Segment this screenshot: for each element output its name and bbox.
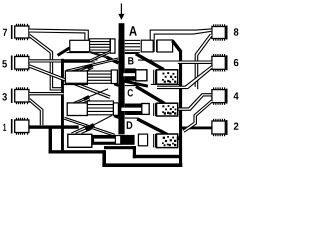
input arrow [118,4,124,20]
input shaft bar A [119,23,125,39]
row A left outer box [70,40,90,51]
row D left ramp [71,115,112,133]
inner rail 3 [133,155,180,158]
wire 7 horizontal [29,29,88,40]
row A left platform lines [66,51,119,72]
wire 6 fork down [157,66,212,89]
row B left ramp [76,65,94,72]
row A left platform wedge [58,48,70,56]
row C left piston [113,103,118,115]
row A right clutch pack [125,40,140,50]
digit 8 [234,28,239,35]
row A left platform bar [61,60,90,63]
row C left clutch pack [87,101,113,115]
row D left box [68,134,92,147]
row D friction pack [157,134,178,148]
wire 4 fork down [183,100,213,132]
row B trapezoid outline [125,54,152,63]
row D double line [154,134,156,147]
row A left clutch pack [90,39,110,53]
left brake symbol 3 [11,87,29,104]
row A right thick diagonal to bus [172,41,181,52]
row C wedge below piston [114,116,119,119]
row C friction pack [157,103,178,116]
row C double line [154,103,156,116]
bottom ladder rail 1 [49,150,106,153]
wire bus to row D diagonal [64,117,115,136]
row D bearing box [115,136,120,145]
row D bar to right bus [177,136,180,140]
wire 5 horizontal [29,60,98,62]
row A right box 1 [141,40,153,52]
row D right box [138,134,147,146]
wire 8 down [195,34,212,89]
inner rail 2 [104,146,136,149]
row C left box [67,103,87,116]
row A right shelf line [125,52,140,54]
row C right box [142,104,149,115]
label B [128,57,133,64]
row B bottom shelf line [64,84,88,86]
digit 6 [234,59,239,66]
wire 3 horizontal [29,93,64,95]
row C right thick bar [121,104,141,116]
row D trapezoid outline [125,118,154,127]
row D rod slot [94,139,115,142]
row B double line [154,70,156,84]
digit 1 [3,124,6,131]
row B left box [65,71,87,83]
row B left clutch pack [88,71,112,83]
right brake symbol 8 [212,24,228,40]
right brake symbol 2 [212,119,228,136]
row A left piston [110,39,115,53]
row C trapezoid outline [125,86,153,96]
digit 2 [234,122,239,129]
label A [129,26,137,35]
left bus bar [61,59,64,154]
digit 5 [2,60,7,67]
right brake symbol 6 [212,54,228,71]
wire 7 diagonal [29,34,61,90]
right bus bar [179,51,182,167]
row B wedge below piston [114,84,119,87]
brake 1 wire [29,125,79,128]
left brake symbol 1 [11,118,29,135]
bottom ladder left vertical [102,150,106,167]
row B lower wedge [119,80,148,86]
row B speckle bottom shelf [151,83,179,85]
left brake symbol 5 [11,54,29,71]
left brake symbol 7 [11,24,29,40]
label D [127,121,133,129]
row B friction pack [157,70,178,84]
wire 5 diagonal [29,65,110,98]
row C wedge [136,86,165,103]
row D wedge [137,119,167,135]
bottom rail [102,163,182,167]
center column shaft [118,40,124,135]
row B left piston [111,70,117,84]
row B right piston box [125,68,136,80]
wire 3 diagonal [29,99,43,126]
row B wedge [136,54,164,70]
digit 3 [2,93,7,100]
brake 2 wire [180,127,212,130]
row D black band [92,135,135,145]
inner vertical [133,146,136,158]
label C [128,89,133,96]
digit 7 [3,29,7,36]
digit 4 [234,92,239,99]
brake 1 wire vertical [49,127,52,153]
wire 4 [178,94,212,111]
row B piston rod slot [123,73,135,76]
wire 6 horizontal [152,61,211,63]
row B right box [136,70,147,81]
row A right box 2 [157,40,173,52]
row C left ramp [73,89,108,103]
row A right double line [154,40,157,52]
wire 8 corner [150,29,211,40]
right brake symbol 4 [212,87,228,104]
